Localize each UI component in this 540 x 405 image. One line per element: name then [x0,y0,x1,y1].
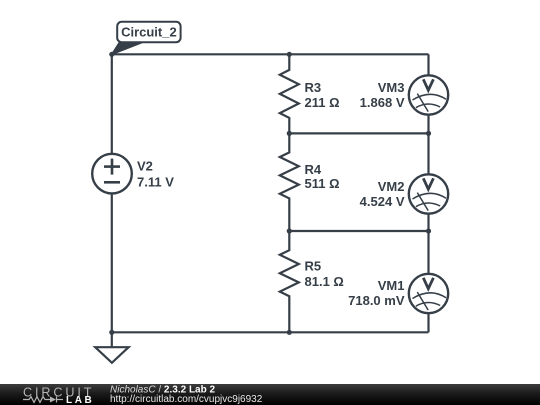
svg-text:V2: V2 [137,158,153,173]
wire row2 (between R3 and R4) [289,132,428,134]
junction row2 right [426,131,431,136]
label VM2 V letter [423,178,433,189]
footer bar [0,384,540,405]
svg-text:211 Ω: 211 Ω [305,95,340,110]
svg-text:VM1: VM1 [378,278,405,293]
label VM1 V letter [423,278,433,289]
svg-text:R5: R5 [305,258,322,273]
resistor R4 [280,133,299,231]
label VM2 value [360,179,405,209]
svg-text:VM2: VM2 [378,179,405,194]
voltmeter VM3 [409,54,448,133]
label VM3 V letter [423,79,433,90]
junction top of R3 [287,52,292,57]
junction bottom left (ground) [109,330,114,335]
label R4 value [305,162,340,191]
svg-text:http://circuitlab.com/cvupjvc9: http://circuitlab.com/cvupjvc9j6932 [110,394,263,405]
wire left rail lower [111,193,113,332]
junction row3 right [426,228,431,233]
svg-text:7.11 V: 7.11 V [137,174,174,189]
junction bottom of R5 [287,330,292,335]
svg-text:511 Ω: 511 Ω [305,176,340,191]
svg-text:1.868 V: 1.868 V [360,95,405,110]
svg-text:4.524 V: 4.524 V [360,194,405,209]
svg-text:LAB: LAB [66,395,94,405]
junction node A (named node, top-left) [109,52,114,57]
resistor R5 [280,231,299,332]
resistor R3 [280,54,299,133]
label V2 value [137,158,174,189]
logo CIRCUIT LAB [23,385,94,405]
svg-text:R4: R4 [305,162,322,177]
junction row3 left [287,228,292,233]
svg-text:R3: R3 [305,80,322,95]
svg-text:81.1 Ω: 81.1 Ω [305,274,344,289]
wire left rail upper [111,54,113,154]
ground [95,332,128,363]
junction row2 left [287,131,292,136]
voltage source V2 [92,154,132,194]
wire top rail [112,53,429,55]
voltmeter VM1 [409,231,448,332]
label R3 value [305,80,340,110]
voltmeter VM2 [409,133,448,231]
wire bottom rail [112,331,429,333]
label VM3 value [360,80,405,110]
label VM1 value [348,278,405,308]
node flag Circuit_2 [112,22,181,55]
svg-text:Circuit_2: Circuit_2 [121,25,177,40]
svg-text:718.0 mV: 718.0 mV [348,293,405,308]
svg-text:VM3: VM3 [378,80,405,95]
label R5 value [305,258,344,289]
wire row3 (between R4 and R5) [289,230,428,232]
